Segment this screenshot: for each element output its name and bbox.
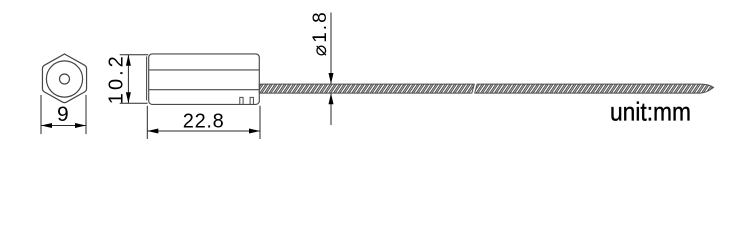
inner circle xyxy=(60,74,70,84)
notch 1 xyxy=(240,97,243,104)
dimension 10.2: line and arrows xyxy=(127,55,129,103)
svg-text:22.8: 22.8 xyxy=(183,110,224,132)
hexagon (seal front view) xyxy=(42,54,86,103)
crimp cap line xyxy=(146,56,148,100)
body horizontal line upper xyxy=(149,69,260,71)
body horizontal line lower xyxy=(149,89,260,91)
dimension 9: line and arrows xyxy=(41,125,86,127)
dimension 1.8: upper line and arrow xyxy=(330,13,332,84)
dimension 22.8: extension lines xyxy=(146,106,148,139)
outer circle xyxy=(46,61,82,97)
seal body (side view) xyxy=(149,54,260,105)
dimension 1.8: lower line and arrow xyxy=(330,94,332,125)
notch 2 xyxy=(250,97,253,104)
cable break gap xyxy=(471,83,477,94)
dimension 10.2: extension lines xyxy=(120,54,149,56)
svg-text:⌀1.8: ⌀1.8 xyxy=(310,12,331,56)
svg-text:9: 9 xyxy=(57,103,69,126)
cable (wire rope) xyxy=(259,84,713,93)
dimension 22.8: line and arrows xyxy=(147,130,260,132)
svg-text:unit:mm: unit:mm xyxy=(610,97,691,127)
svg-text:10.2: 10.2 xyxy=(106,56,128,104)
dimension 9: extension lines xyxy=(40,95,42,134)
cable break edges xyxy=(472,84,475,94)
